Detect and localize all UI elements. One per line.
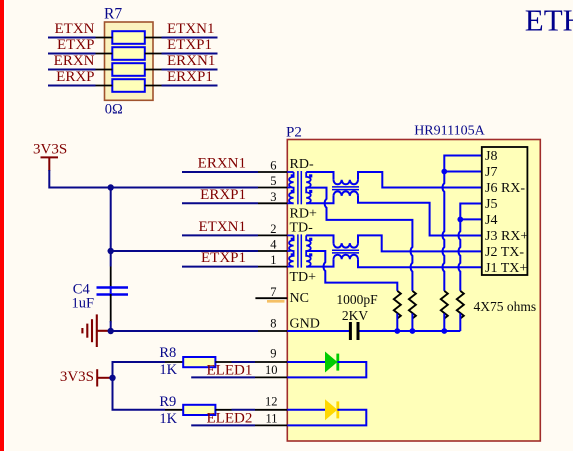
wire ETXP1 <box>182 266 258 268</box>
svg-text:4: 4 <box>270 238 277 252</box>
transformer TD (TX) <box>287 235 310 266</box>
svg-text:J8: J8 <box>485 149 497 164</box>
svg-text:3V3S: 3V3S <box>60 369 94 385</box>
svg-text:11: 11 <box>265 411 277 425</box>
pin 6 <box>258 171 287 173</box>
svg-text:J5: J5 <box>485 197 497 212</box>
pin 7 <box>255 297 287 299</box>
svg-text:10: 10 <box>265 363 278 377</box>
P2 pins (black stubs) <box>255 172 287 425</box>
svg-text:1000pF: 1000pF <box>336 292 378 307</box>
svg-text:ETXP1: ETXP1 <box>167 37 212 53</box>
wire choke TD top out to J2 <box>358 235 482 251</box>
wire R8 to pin9 <box>232 361 256 363</box>
compile mark under pin 7 <box>267 300 285 303</box>
svg-text:ERXN1: ERXN1 <box>167 53 215 69</box>
svg-text:TD+: TD+ <box>290 270 317 285</box>
wire vertical 3V3S bus <box>110 188 112 267</box>
transformer RD polarity dots <box>291 174 294 177</box>
wire choke RD bottom out to J3 <box>358 196 482 236</box>
svg-text:ETXN: ETXN <box>55 21 95 37</box>
wire ELED2 to pin11 <box>191 424 255 426</box>
svg-text:ERXP: ERXP <box>56 69 94 85</box>
svg-text:3V3S: 3V3S <box>33 142 67 158</box>
junction dot gnd <box>108 328 114 334</box>
svg-text:RD-: RD- <box>290 157 314 172</box>
jack pin labels <box>485 149 528 276</box>
svg-text:TD-: TD- <box>290 221 314 236</box>
transformer RD (RX) <box>287 172 310 203</box>
resistor 75ohm #3 <box>441 291 448 319</box>
capacitor C4 <box>97 267 129 323</box>
junction dot pin5 branch <box>108 184 114 190</box>
wire choke TD bottom out to J1 <box>358 259 482 267</box>
wire J8/J7 tie to resistor 3 <box>443 156 482 291</box>
svg-text:ERXN: ERXN <box>54 53 95 69</box>
svg-text:ERXP1: ERXP1 <box>167 69 213 85</box>
svg-text:J6 RX-: J6 RX- <box>485 181 525 196</box>
svg-text:7: 7 <box>270 285 276 299</box>
wire TD winding bottom to choke bottom <box>306 259 333 266</box>
wires into R7 <box>48 38 218 86</box>
wire 3V3S bus to R8/R9 <box>113 362 166 410</box>
svg-text:1K: 1K <box>159 362 177 378</box>
wire R9 to pin12 <box>232 409 256 411</box>
choke RD (common-mode) <box>334 180 359 185</box>
junction dots resistor rail <box>394 328 400 334</box>
svg-text:ERXP1: ERXP1 <box>200 187 246 203</box>
red sheet border stripe <box>0 0 4 451</box>
svg-text:J2 TX-: J2 TX- <box>485 245 524 260</box>
svg-text:RD+: RD+ <box>290 207 317 222</box>
svg-text:0Ω: 0Ω <box>105 102 123 118</box>
wire choke RD top out to J6 <box>358 172 482 188</box>
power port 3V3S (bottom) <box>97 369 110 386</box>
pin names <box>290 157 320 332</box>
svg-text:GND: GND <box>290 317 320 332</box>
wire ETXN1 <box>182 234 258 236</box>
wire J4 <box>460 218 482 220</box>
svg-text:4X75 ohms: 4X75 ohms <box>474 299 537 314</box>
resistor R7b <box>112 47 145 60</box>
pin numbers <box>265 159 278 426</box>
P2 body <box>287 140 540 442</box>
svg-text:3: 3 <box>270 190 276 204</box>
wire RD winding top to choke top <box>306 172 333 180</box>
svg-text:R9: R9 <box>159 394 176 410</box>
resistor R8 <box>165 357 232 367</box>
svg-text:ETXN1: ETXN1 <box>199 219 247 235</box>
svg-text:1: 1 <box>270 253 276 267</box>
wire ERXP1 <box>182 202 258 204</box>
pin 9 <box>255 361 287 363</box>
junction dot J7/J8 <box>441 169 447 175</box>
svg-text:ELED2: ELED2 <box>207 411 253 427</box>
svg-text:J7: J7 <box>485 165 497 180</box>
svg-text:P2: P2 <box>286 125 302 141</box>
svg-text:2KV: 2KV <box>342 308 368 323</box>
resistor R9 <box>165 405 232 415</box>
wire C4 to gnd junction <box>110 321 112 331</box>
pin 10 <box>255 376 287 378</box>
junction dot pin4 branch <box>108 248 114 254</box>
wire J7 <box>444 171 482 173</box>
wire GND row to pin 8 <box>108 330 258 332</box>
wire J5/J4 tie to resistor 4 <box>459 204 482 291</box>
resistor 75ohm #2 <box>409 291 416 319</box>
svg-text:ETHERNET: ETHERNET <box>525 3 573 38</box>
power port 3V3S (top) <box>41 157 59 171</box>
pin 3 <box>258 202 287 204</box>
transformer TD polarity dots <box>291 238 294 241</box>
resistor 75ohm #1 <box>394 291 401 319</box>
svg-text:HR911105A: HR911105A <box>414 124 485 139</box>
pin 11 <box>255 424 287 426</box>
svg-text:J3 RX+: J3 RX+ <box>485 229 528 244</box>
svg-text:12: 12 <box>265 395 278 409</box>
svg-text:1K: 1K <box>159 411 177 427</box>
resistor R7a <box>112 31 145 44</box>
ground symbol <box>82 314 108 347</box>
svg-text:R7: R7 <box>104 6 122 23</box>
svg-text:ELED1: ELED1 <box>207 363 253 379</box>
svg-text:5: 5 <box>270 174 276 188</box>
svg-text:R8: R8 <box>159 345 176 361</box>
capacitor 1000pF 2KV <box>350 322 358 340</box>
resistor R7d <box>112 79 145 92</box>
wire 3V3S down and to pin5 <box>49 170 258 188</box>
wire to pin 4 <box>111 250 258 252</box>
wire TD winding top to choke top <box>306 235 333 243</box>
svg-text:9: 9 <box>270 346 276 360</box>
svg-text:J4: J4 <box>485 213 497 228</box>
svg-text:1uF: 1uF <box>72 295 95 311</box>
R7 pins (black) <box>96 38 162 86</box>
wire RD centre tap to resistor 2 <box>306 188 412 291</box>
svg-text:8: 8 <box>270 317 276 331</box>
LED green (link) <box>287 361 325 363</box>
gnd rail inside P2 <box>287 330 349 332</box>
svg-text:2: 2 <box>270 222 276 236</box>
svg-text:6: 6 <box>270 159 276 173</box>
svg-text:J1 TX+: J1 TX+ <box>485 261 527 276</box>
wire TD centre tap to resistor 1 <box>306 251 397 291</box>
pin 12 <box>255 409 287 411</box>
pin 8 <box>258 330 287 332</box>
svg-text:ETXP1: ETXP1 <box>201 250 246 266</box>
junction dot 3V3S <box>109 375 115 381</box>
junction dot J5/J4 <box>457 217 463 223</box>
pin 4 <box>258 250 287 252</box>
svg-text:ERXN1: ERXN1 <box>198 156 246 172</box>
svg-text:NC: NC <box>290 291 309 306</box>
wire ERXN1 <box>182 171 258 173</box>
svg-text:ETXN1: ETXN1 <box>167 21 215 37</box>
resistor R7c <box>112 63 145 76</box>
pin 2 <box>258 234 287 236</box>
resistor bottom leads <box>397 314 460 332</box>
connector jack block J1-J8 <box>482 147 528 275</box>
wire RD winding bottom to choke bottom <box>306 196 333 203</box>
resistor 75ohm #4 <box>457 291 464 319</box>
LED yellow (activity) <box>287 409 325 411</box>
pin 1 <box>258 266 287 268</box>
svg-text:ETXP: ETXP <box>57 37 95 53</box>
wire ELED1 to pin10 <box>191 376 255 378</box>
pin 5 <box>258 187 287 189</box>
resistor pack R7 body <box>105 22 154 100</box>
choke TD (common-mode) <box>334 243 359 248</box>
